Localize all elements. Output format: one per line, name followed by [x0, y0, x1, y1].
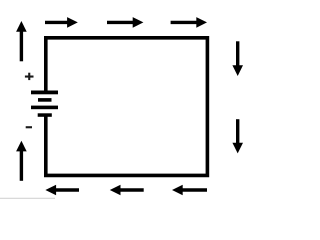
current arrow top 3 (right) [171, 17, 207, 28]
current arrow right upper (down) [232, 41, 243, 76]
current arrow bottom 2 (left) [110, 185, 144, 196]
current arrow top 2 (right) [107, 17, 143, 28]
current arrow bottom 3 (left) [172, 185, 207, 196]
current arrow left lower (up) [16, 141, 27, 181]
current arrow top 1 (right) [45, 17, 78, 28]
current arrow bottom 1 (left) [45, 185, 79, 196]
battery B1 [31, 91, 58, 117]
label + (battery positive) [25, 73, 34, 80]
faint baseline mark [0, 198, 55, 199]
label - (battery negative) [26, 126, 32, 128]
battery plate short [38, 98, 52, 102]
current arrow left upper (up) [16, 21, 27, 61]
wire loop [46, 38, 208, 176]
battery plate long (top, +) [31, 91, 58, 95]
battery plate long [31, 106, 58, 110]
battery plate short (bottom, -) [38, 113, 52, 117]
current arrow right lower (down) [232, 119, 243, 153]
